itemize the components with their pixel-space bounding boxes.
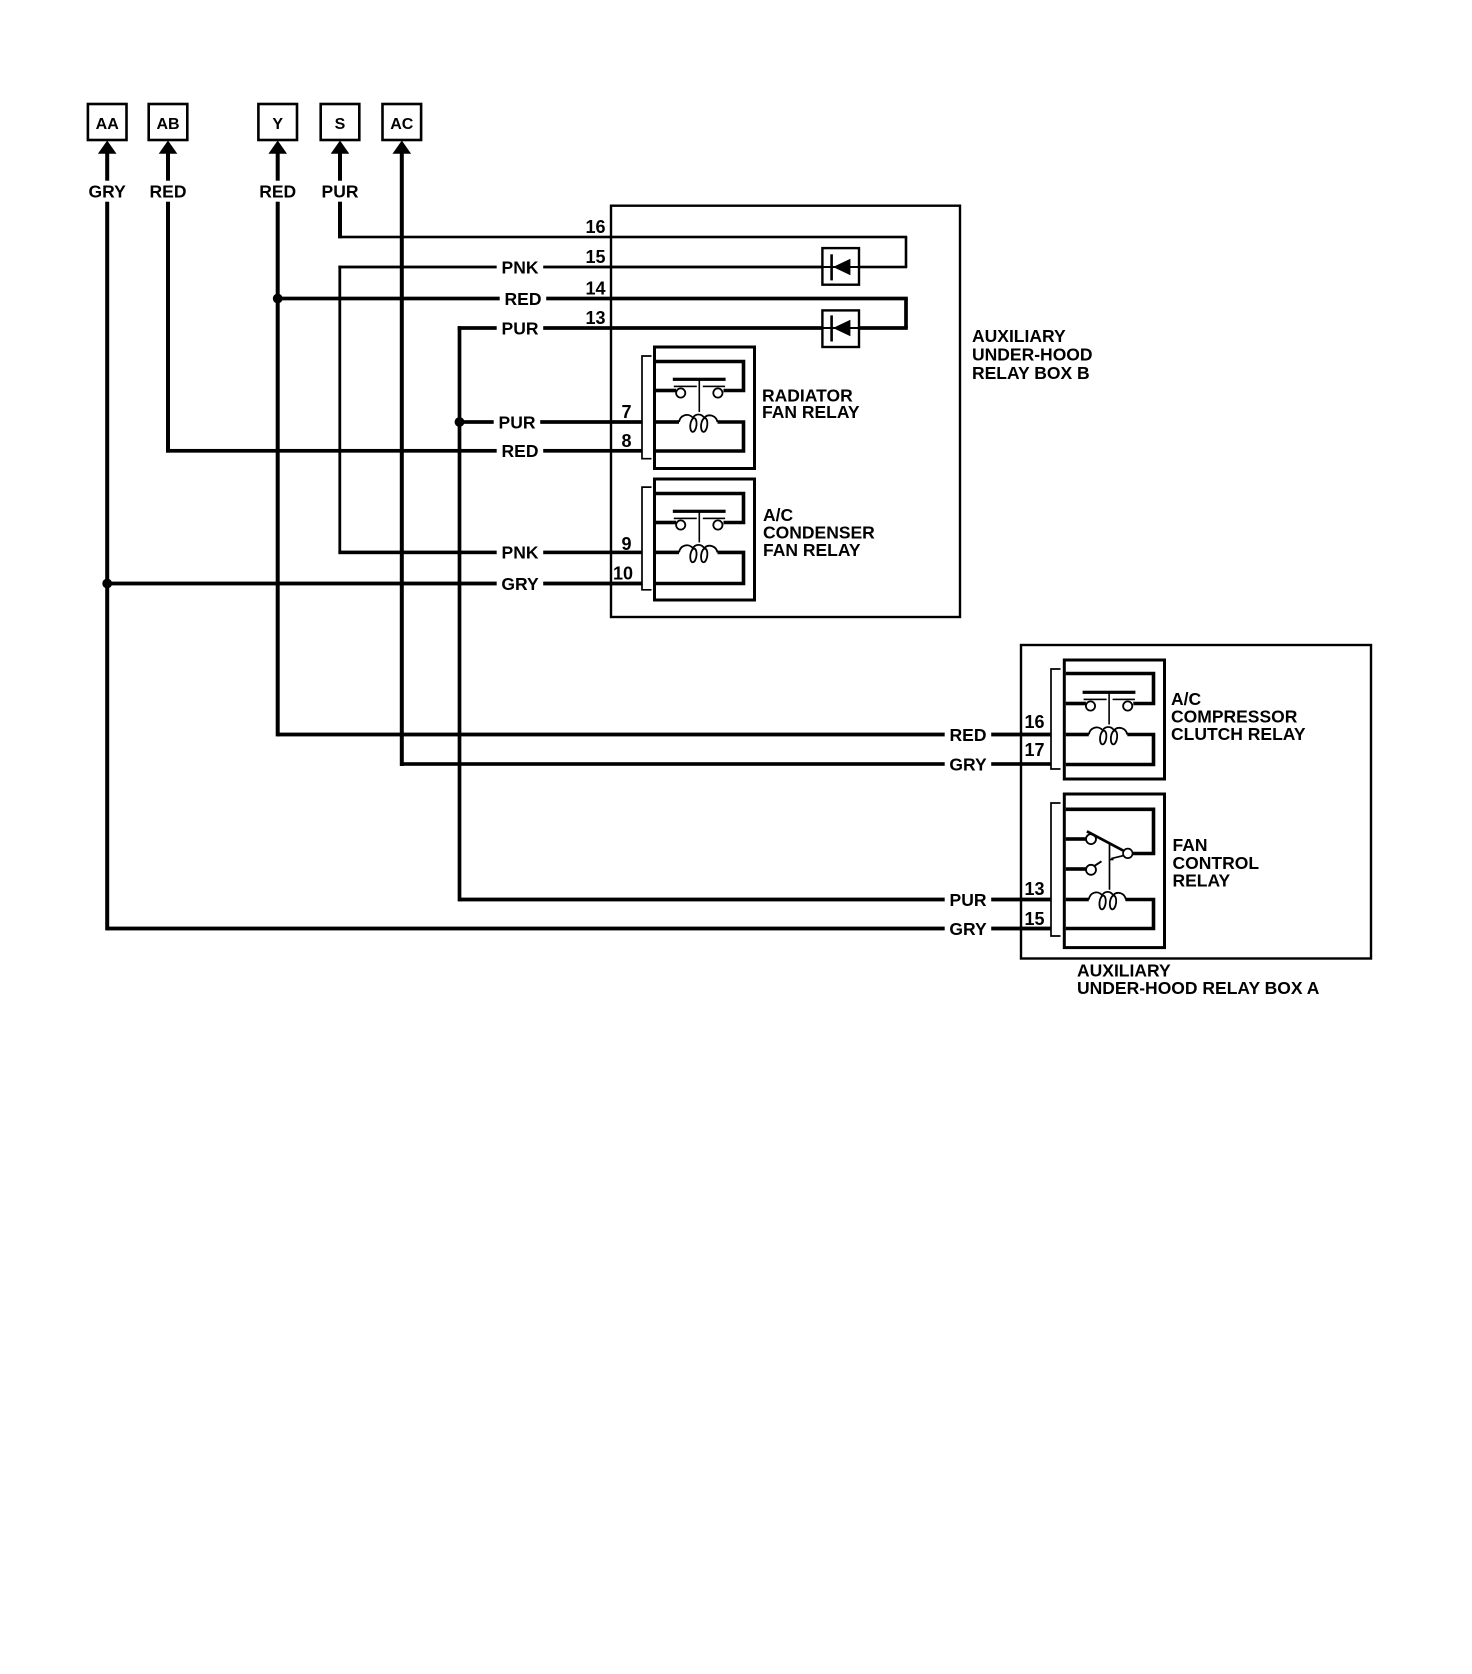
- relay fan control: common contact point: [1123, 849, 1133, 859]
- relay A/C compressor clutch: right contact point: [1123, 701, 1132, 710]
- relay fan control: armature link to common: [1111, 856, 1123, 859]
- wire PUR from connector S down to pin 16 row of relay box B: [338, 153, 342, 238]
- wire row pin 17 GRY of box A (from AC): [402, 762, 1051, 766]
- svg-text:CLUTCH RELAY: CLUTCH RELAY: [1171, 724, 1306, 744]
- relay fan control: coil to bottom terminal: [1066, 900, 1154, 929]
- wire label GRY on box A row at y=928.5: [945, 919, 992, 939]
- svg-text:16: 16: [585, 217, 605, 237]
- connector S: [321, 104, 360, 140]
- wire label PUR under connector S: [320, 181, 361, 202]
- connector bracket for A/C compressor clutch relay pins 16/17: [1051, 669, 1061, 769]
- relay radiator fan: fixed contact bar: [673, 378, 726, 381]
- svg-text:FAN: FAN: [1173, 835, 1208, 855]
- connector bracket for radiator fan relay pins 7/8: [642, 356, 652, 459]
- connector AC: [383, 104, 422, 140]
- svg-text:RED: RED: [505, 289, 542, 309]
- relay A/C condenser fan: armature stem: [699, 511, 701, 542]
- relay A/C compressor clutch: outer box: [1064, 660, 1164, 779]
- wire: pin14 loop down to diode D2: [904, 299, 908, 329]
- wire row pin 16 of box B (from S): [339, 236, 908, 239]
- relay radiator fan: coil terminal wire: [656, 420, 679, 424]
- wire row pin 7 PUR (from junction on PUR vertical): [460, 420, 642, 424]
- wire RED from connector AB down to pin 8 row: [166, 153, 170, 453]
- connector Y: [258, 104, 297, 140]
- wire PNK vertical joining pin 15 and pin 9 rows: [338, 266, 341, 554]
- wire label RED under connector Y: [257, 181, 298, 202]
- svg-text:PNK: PNK: [502, 543, 539, 563]
- connector bracket for fan control relay pins 13/15: [1051, 803, 1061, 936]
- connector bracket for A/C condenser fan relay pins 9/10: [642, 487, 652, 590]
- wire label RED on row at y=450.8: [497, 441, 544, 461]
- relay A/C compressor clutch: coil winding: [1089, 727, 1128, 735]
- svg-text:GRY: GRY: [949, 754, 987, 774]
- wire row pin 16 RED of box A (from Y): [278, 733, 1051, 737]
- connector AB: [149, 104, 188, 140]
- wire RED from connector Y down to pin 16 row of relay box A: [276, 153, 280, 736]
- svg-text:RED: RED: [150, 182, 187, 202]
- relay fan control: NC contact point: [1086, 834, 1096, 844]
- relay radiator fan: top bar terminal: [656, 362, 744, 391]
- diode D2 (pin 13/14 circuit): [822, 310, 859, 347]
- wire row pin 13 PUR of box B: [458, 326, 823, 330]
- relay fan control: coil terminal wire: [1066, 898, 1089, 902]
- svg-text:UNDER-HOOD RELAY BOX A: UNDER-HOOD RELAY BOX A: [1077, 978, 1320, 998]
- svg-text:RELAY BOX B: RELAY BOX B: [972, 363, 1090, 383]
- wire row pin 15 PNK of box B: [338, 266, 822, 269]
- svg-text:RED: RED: [502, 441, 539, 461]
- wire label PUR on row at y=422: [494, 412, 541, 432]
- junction dot on AA wire at pin 10 row: [102, 579, 112, 589]
- wire GRY from connector AA down to pin 15 row of relay box A: [105, 153, 109, 930]
- relay A/C compressor clutch: coil to bottom terminal: [1066, 735, 1154, 765]
- relay A/C compressor clutch: top bar terminal: [1066, 674, 1154, 704]
- relay fan control: NO terminal wire: [1066, 867, 1086, 871]
- svg-text:16: 16: [1024, 712, 1044, 732]
- relay A/C condenser fan: left contact point: [676, 520, 685, 529]
- svg-text:9: 9: [621, 534, 631, 554]
- wire row pin 8 RED (from AB): [166, 449, 642, 453]
- svg-text:Y: Y: [272, 116, 283, 133]
- relay A/C condenser fan: coil terminal wire: [656, 551, 679, 555]
- wire PUR vertical from pin 13 row down to pin 13 row of box A: [458, 326, 462, 901]
- svg-text:PUR: PUR: [502, 318, 539, 338]
- svg-text:PUR: PUR: [322, 182, 359, 202]
- relay A/C condenser fan: moving contact thin lines: [674, 518, 697, 520]
- svg-text:7: 7: [621, 402, 631, 422]
- svg-text:14: 14: [585, 279, 605, 299]
- relay A/C condenser fan: contact terminal wire: [656, 521, 676, 525]
- svg-text:17: 17: [1024, 740, 1044, 760]
- wire: pin16 loop down to diode D1: [905, 237, 908, 267]
- auxiliary under-hood relay box A outline: [1021, 645, 1371, 959]
- relay radiator fan: left contact point: [676, 388, 685, 397]
- wire label PUR on box A row at y=899.5: [945, 890, 992, 910]
- relay A/C condenser fan: right contact point: [713, 520, 722, 529]
- relay fan control: NC terminal wire: [1066, 837, 1086, 841]
- svg-text:10: 10: [613, 564, 633, 584]
- wire from connector AC down to pin 17 row of relay box A: [400, 153, 404, 766]
- svg-text:UNDER-HOOD: UNDER-HOOD: [972, 344, 1093, 364]
- relay A/C condenser fan: coil to bottom terminal: [656, 552, 744, 583]
- relay fan control: NO contact point: [1086, 865, 1096, 875]
- wire row pin 10 GRY (from junction on AA wire): [107, 582, 642, 586]
- relay radiator fan: coil winding: [679, 414, 718, 422]
- relay fan control: switch arm (NC to common): [1087, 831, 1124, 851]
- svg-text:15: 15: [1024, 909, 1044, 929]
- auxiliary under-hood relay box B outline: [611, 206, 960, 617]
- svg-text:PNK: PNK: [502, 257, 539, 277]
- svg-text:15: 15: [585, 247, 605, 267]
- relay radiator fan: right contact point: [713, 388, 722, 397]
- relay A/C compressor clutch: moving contact thin lines: [1084, 699, 1107, 701]
- wire label PUR on row at y=328: [497, 318, 544, 338]
- svg-text:RED: RED: [950, 725, 987, 745]
- junction dot on PUR vertical at pin 7 row: [455, 417, 465, 427]
- wire arrow into AA: [98, 141, 117, 154]
- wire arrow into AB: [159, 141, 178, 154]
- relay A/C compressor clutch: coil terminal wire: [1066, 733, 1089, 737]
- svg-text:FAN RELAY: FAN RELAY: [762, 402, 860, 422]
- relay radiator fan: moving contact thin lines: [674, 386, 697, 388]
- wire arrow into S: [331, 141, 350, 154]
- wire label RED under connector AB: [148, 181, 189, 202]
- relay A/C compressor clutch: contact terminal wire: [1066, 702, 1086, 706]
- wire label PNK on row at y=552.4: [497, 542, 544, 562]
- relay fan control: outer box: [1064, 794, 1164, 948]
- wire label GRY on row at y=583.5: [497, 574, 544, 594]
- svg-text:RELAY: RELAY: [1173, 871, 1231, 891]
- relay A/C compressor clutch: left contact point: [1086, 701, 1095, 710]
- svg-text:RED: RED: [259, 182, 296, 202]
- wire label RED on row at y=298.5: [500, 289, 547, 309]
- relay A/C compressor clutch: armature stem: [1108, 692, 1110, 724]
- svg-text:PUR: PUR: [950, 890, 987, 910]
- relay fan control: NO open tick: [1095, 861, 1102, 866]
- relay A/C condenser fan: fixed contact bar: [673, 510, 726, 513]
- relay radiator fan: armature stem: [699, 379, 701, 412]
- relay A/C condenser fan: coil winding: [679, 545, 718, 553]
- wire row pin 9 PNK: [338, 551, 641, 555]
- svg-text:S: S: [335, 116, 346, 133]
- wire arrow into Y: [268, 141, 287, 154]
- relay fan control: top bar terminal down to common contact: [1066, 809, 1154, 853]
- relay A/C condenser fan: top bar terminal: [656, 494, 744, 523]
- svg-text:8: 8: [621, 431, 631, 451]
- wire row pin 15 GRY of box A (from AA): [107, 927, 1051, 931]
- svg-text:GRY: GRY: [949, 919, 987, 939]
- svg-text:AA: AA: [96, 116, 120, 133]
- wire label GRY under connector AA: [87, 181, 128, 202]
- relay radiator fan: outer box: [655, 347, 755, 469]
- svg-text:AUXILIARY: AUXILIARY: [972, 326, 1066, 346]
- diode D1 (pin 15/16 circuit): [822, 248, 859, 285]
- relay A/C condenser fan: outer box: [655, 479, 755, 600]
- relay radiator fan: coil to bottom terminal: [656, 422, 744, 451]
- wire label GRY on box A row at y=764: [945, 754, 992, 774]
- relay A/C compressor clutch: fixed contact bar: [1083, 691, 1136, 694]
- svg-text:13: 13: [1024, 879, 1044, 899]
- junction dot on Y wire at pin 14 row: [273, 294, 283, 304]
- svg-text:PUR: PUR: [499, 412, 536, 432]
- svg-text:FAN RELAY: FAN RELAY: [763, 540, 861, 560]
- svg-text:AC: AC: [390, 116, 414, 133]
- relay fan control: coil winding: [1089, 892, 1126, 900]
- wire row pin 13 PUR of box A (from PUR vertical): [460, 898, 1052, 902]
- relay radiator fan: contact terminal wire: [656, 389, 676, 393]
- svg-text:13: 13: [585, 308, 605, 328]
- svg-text:GRY: GRY: [89, 182, 127, 202]
- relay fan control: armature stem: [1109, 844, 1111, 890]
- wire arrow into AC: [393, 141, 412, 154]
- wire label PNK on row at y=267: [497, 257, 544, 277]
- connector AA: [88, 104, 127, 140]
- svg-text:AB: AB: [156, 116, 179, 133]
- wire label RED on box A row at y=734.5: [945, 725, 992, 745]
- svg-text:GRY: GRY: [501, 574, 539, 594]
- wire row pin 14 RED of box B (from junction on Y wire): [278, 297, 908, 301]
